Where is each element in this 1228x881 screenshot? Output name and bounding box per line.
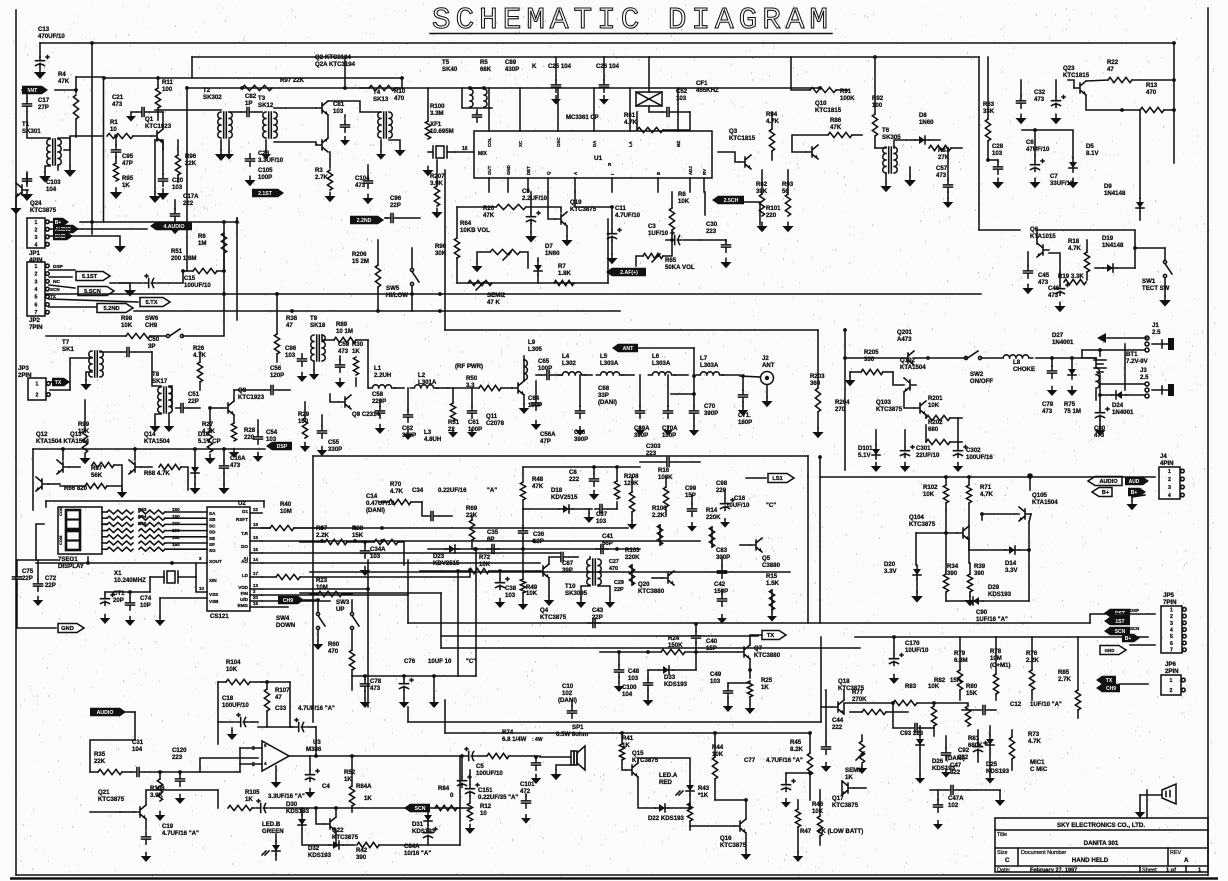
svg-text:SE: SE	[209, 536, 215, 541]
svg-text:473: 473	[338, 348, 349, 355]
svg-text:15P: 15P	[685, 492, 696, 499]
wire xout common	[36, 562, 207, 564]
svg-text:1 of: 1 of	[1166, 868, 1176, 874]
svg-text:100: 100	[162, 86, 173, 93]
tag GND JP5	[1100, 646, 1126, 655]
tag 2.1ST	[252, 189, 284, 197]
wire second bus drop left	[186, 88, 188, 271]
pins U1 bottom	[488, 178, 490, 192]
svg-text:DSP: DSP	[53, 264, 64, 270]
svg-text:C26 104: C26 104	[596, 63, 620, 70]
svg-text:C103: C103	[46, 179, 61, 186]
svg-text:FIN: FIN	[241, 591, 249, 596]
svg-text:R97 22K: R97 22K	[280, 77, 305, 84]
svg-text:150: 150	[172, 514, 180, 519]
svg-text:R26: R26	[193, 345, 205, 352]
svg-text:(DANI): (DANI)	[366, 507, 385, 514]
svg-text:120P: 120P	[270, 372, 284, 379]
svg-text:R14: R14	[706, 507, 718, 514]
svg-text:KDS193: KDS193	[286, 808, 310, 815]
svg-text:JP3: JP3	[18, 365, 29, 372]
svg-text:150: 150	[172, 542, 180, 547]
svg-text:3P: 3P	[148, 343, 155, 350]
svg-text:Date:: Date:	[997, 868, 1011, 874]
svg-text:T.R: T.R	[241, 531, 249, 536]
svg-text:CF1: CF1	[696, 80, 708, 87]
tag 4.AUDIO	[150, 222, 192, 230]
svg-text:R204: R204	[835, 399, 850, 406]
svg-text:C35: C35	[487, 529, 499, 536]
wire T1 to Q1	[64, 136, 103, 150]
svg-text:DISPLAY: DISPLAY	[58, 563, 84, 570]
svg-text:J4: J4	[1160, 453, 1167, 460]
svg-text:"A": "A"	[487, 487, 497, 494]
svg-text:4.7K: 4.7K	[390, 488, 403, 495]
svg-text:C58: C58	[372, 391, 384, 398]
svg-text:10UF/10: 10UF/10	[726, 502, 750, 509]
svg-text:0.47UF/10: 0.47UF/10	[366, 500, 395, 507]
svg-text:R25: R25	[761, 677, 773, 684]
svg-text:7: 7	[1170, 648, 1173, 654]
svg-text:2: 2	[36, 393, 39, 399]
svg-text:103: 103	[596, 518, 607, 525]
svg-text:16: 16	[253, 535, 258, 540]
svg-text:R206: R206	[352, 251, 367, 258]
svg-text:SK13: SK13	[373, 96, 389, 103]
svg-text:10P: 10P	[140, 602, 151, 609]
svg-text:C18: C18	[222, 695, 234, 702]
svg-text:R68 4.7K: R68 4.7K	[144, 470, 170, 477]
connector JP1	[27, 218, 45, 248]
wire U2 pin13 VDD	[262, 588, 368, 590]
svg-text:C170: C170	[905, 640, 920, 647]
svg-text:COM: COM	[58, 535, 63, 545]
svg-text:GREEN: GREEN	[262, 828, 284, 835]
svg-text:47P: 47P	[122, 160, 133, 167]
svg-text:C56: C56	[270, 365, 282, 372]
wire fb top	[217, 682, 219, 744]
svg-text:C33: C33	[275, 705, 287, 712]
svg-text:390P: 390P	[574, 436, 588, 443]
svg-text:LD: LD	[242, 573, 249, 578]
svg-text:J3: J3	[1140, 367, 1147, 374]
resistor R208b	[614, 481, 619, 499]
svg-text:4.7UF/16 "A": 4.7UF/16 "A"	[162, 830, 199, 837]
svg-text:C120: C120	[172, 747, 187, 754]
wire U2 pin17 LD	[262, 576, 276, 578]
tag SCN bottom	[404, 804, 430, 812]
svg-text:R105: R105	[245, 789, 260, 796]
svg-text:VSS: VSS	[209, 592, 218, 597]
capacitor c19cap	[142, 832, 151, 844]
svg-text:*1K: *1K	[698, 792, 709, 799]
connector JP6	[1161, 675, 1181, 695]
svg-text:MZ: MZ	[676, 140, 681, 147]
svg-text:2.7K: 2.7K	[1058, 676, 1071, 683]
svg-text:100UF/10: 100UF/10	[222, 702, 249, 709]
svg-text:KTA1504: KTA1504	[900, 364, 926, 371]
svg-text:SF: SF	[209, 542, 215, 547]
svg-text:330: 330	[864, 356, 875, 363]
svg-text:103: 103	[172, 184, 183, 191]
svg-text:150: 150	[172, 535, 180, 540]
svg-text:D33: D33	[664, 674, 676, 681]
svg-text:L7: L7	[700, 355, 708, 362]
svg-text:2.5: 2.5	[1152, 329, 1161, 336]
svg-text:1K: 1K	[344, 776, 352, 783]
svg-text:L303A: L303A	[652, 360, 671, 367]
svg-text:103: 103	[285, 352, 296, 359]
svg-text:C302: C302	[966, 447, 981, 454]
svg-text:VSB: VSB	[209, 599, 219, 604]
svg-text:KTC3875: KTC3875	[832, 802, 859, 809]
svg-text:47: 47	[1107, 66, 1114, 73]
svg-text:8.2K: 8.2K	[790, 746, 803, 753]
wire q21 rail	[90, 811, 120, 813]
svg-text:C17A: C17A	[183, 193, 199, 200]
wire bottom audio rail	[217, 790, 219, 808]
svg-text:SK1: SK1	[62, 346, 74, 353]
title block row lines	[995, 830, 1208, 866]
svg-text:L303A: L303A	[700, 362, 719, 369]
svg-text:XIN: XIN	[209, 578, 217, 583]
svg-text:R98: R98	[121, 315, 133, 322]
svg-text:C12: C12	[1010, 701, 1022, 708]
svg-text:R36: R36	[286, 315, 298, 322]
svg-text:223: 223	[706, 228, 717, 235]
svg-text:C41: C41	[602, 533, 614, 540]
svg-text:1UF/16 "A": 1UF/16 "A"	[976, 616, 1008, 623]
svg-text:D8: D8	[919, 112, 927, 119]
svg-text:1: 1	[35, 220, 38, 226]
svg-text:JP2: JP2	[29, 317, 40, 324]
svg-text:300P: 300P	[716, 554, 730, 561]
svg-text:X1: X1	[114, 570, 122, 577]
svg-text:100UF/16: 100UF/16	[966, 454, 993, 461]
svg-text:180P: 180P	[738, 419, 752, 426]
svg-text:4: 4	[35, 287, 38, 293]
svg-text:50KA VOL: 50KA VOL	[665, 264, 695, 271]
svg-text:473: 473	[1042, 408, 1053, 415]
wire xin	[149, 577, 151, 592]
svg-text:COM: COM	[58, 506, 63, 516]
wire U2 pin18 T.R	[262, 527, 270, 529]
svg-text:CS121: CS121	[210, 613, 229, 620]
svg-text:SK301: SK301	[22, 128, 41, 135]
svg-text:10.240MHZ: 10.240MHZ	[114, 577, 146, 584]
svg-text:2.2UF/10: 2.2UF/10	[522, 195, 548, 202]
svg-text:R69: R69	[466, 505, 478, 512]
svg-text:R84: R84	[438, 785, 450, 792]
svg-text:10: 10	[110, 126, 117, 133]
node bus junctions	[185, 86, 189, 90]
svg-text:R92: R92	[872, 95, 884, 102]
svg-text:ANT: ANT	[27, 88, 38, 94]
svg-text:D16: D16	[198, 431, 210, 438]
svg-text:10K: 10K	[226, 666, 238, 673]
svg-text:ADJ: ADJ	[688, 166, 693, 175]
wire JP1 gnd	[49, 236, 120, 242]
svg-text:22K: 22K	[94, 758, 106, 765]
resistor bank R51-R57 segment resistors	[107, 510, 133, 514]
svg-text:R75: R75	[1064, 401, 1076, 408]
svg-text:1UF/10 "A": 1UF/10 "A"	[1030, 701, 1062, 708]
svg-text:1: 1	[35, 264, 38, 270]
svg-text:SEMI2: SEMI2	[487, 292, 506, 299]
svg-text:KTC3875: KTC3875	[909, 521, 936, 528]
svg-text:680: 680	[928, 426, 939, 433]
svg-text:390: 390	[947, 570, 958, 577]
svg-text:SA: SA	[209, 511, 216, 516]
wire U2 pin20 UD	[262, 600, 330, 602]
svg-text:4: 4	[1170, 628, 1173, 634]
svg-text:C25 104: C25 104	[548, 63, 572, 70]
svg-text:Q16: Q16	[720, 835, 732, 842]
svg-text:R38: R38	[352, 525, 364, 532]
svg-text:U1: U1	[594, 155, 603, 162]
svg-text:C90: C90	[976, 609, 988, 616]
svg-text:68K: 68K	[480, 66, 492, 73]
svg-text:4.7K: 4.7K	[1068, 245, 1081, 252]
capacitor C4b	[306, 771, 315, 782]
svg-text:5.1ST: 5.1ST	[82, 274, 98, 280]
svg-text:Q19: Q19	[570, 199, 582, 206]
svg-text:SCN: SCN	[415, 806, 426, 812]
svg-text:KTC1815: KTC1815	[729, 135, 756, 142]
svg-text:R205: R205	[864, 349, 879, 356]
wire opamp out	[289, 755, 460, 757]
svg-text:CH9: CH9	[145, 322, 158, 329]
svg-text:10M: 10M	[280, 508, 292, 515]
svg-text:10: 10	[199, 586, 204, 591]
svg-text:470: 470	[609, 566, 618, 572]
svg-text:SB: SB	[209, 517, 216, 522]
wire U2 pin19 EMG	[262, 606, 288, 608]
svg-text:KTA1504: KTA1504	[144, 438, 170, 445]
svg-text:7PIN: 7PIN	[29, 324, 43, 331]
svg-text:DANITA 301: DANITA 301	[1084, 840, 1119, 847]
svg-text:C50: C50	[148, 336, 160, 343]
svg-text:222: 222	[569, 476, 580, 483]
wire bottom band bus 733	[445, 732, 810, 734]
svg-text:473: 473	[370, 685, 381, 692]
svg-text:150P: 150P	[714, 588, 728, 595]
svg-text:R95: R95	[122, 175, 134, 182]
svg-text:T3: T3	[258, 95, 266, 102]
svg-text:4.AUDIO: 4.AUDIO	[163, 224, 184, 230]
tag 5.1ST	[49, 269, 75, 271]
svg-text:1: 1	[1170, 607, 1173, 613]
svg-text:Q: Q	[546, 171, 551, 175]
svg-text:Q1: Q1	[145, 116, 154, 123]
svg-text:R39: R39	[974, 563, 986, 570]
svg-text:C83: C83	[716, 547, 728, 554]
svg-text:2.2K: 2.2K	[652, 512, 665, 519]
svg-text:15 2M: 15 2M	[352, 258, 369, 265]
svg-text:R4: R4	[58, 71, 66, 78]
svg-text:Q3: Q3	[729, 128, 738, 135]
svg-text:KTC3875: KTC3875	[30, 207, 57, 214]
svg-text:(DANI): (DANI)	[598, 399, 617, 406]
svg-text:Q104: Q104	[909, 514, 925, 521]
svg-text:473: 473	[1034, 96, 1045, 103]
svg-text:3: 3	[35, 235, 38, 241]
svg-text:0.22UF/35 "A": 0.22UF/35 "A"	[478, 794, 518, 801]
svg-text:8.1V: 8.1V	[1086, 150, 1099, 157]
svg-text:EMG: EMG	[238, 603, 249, 608]
digit 1	[66, 510, 80, 529]
svg-text:T7: T7	[62, 339, 70, 346]
svg-text:UP: UP	[336, 606, 344, 613]
ground C13	[39, 68, 41, 72]
ground T1 left	[69, 166, 71, 170]
svg-text:C11: C11	[615, 205, 626, 212]
svg-text:R13: R13	[1146, 82, 1158, 89]
svg-text:4: 4	[1168, 493, 1171, 499]
ground JP2 area	[129, 286, 131, 290]
svg-text:2: 2	[1170, 614, 1173, 620]
wire q6 cluster	[1135, 248, 1165, 268]
pins U1 top	[488, 88, 490, 131]
wire power rail y358	[914, 357, 966, 359]
svg-text:CH9: CH9	[283, 598, 293, 604]
svg-text:270: 270	[835, 406, 846, 413]
svg-text:C81: C81	[333, 101, 345, 108]
wire q23 down	[1086, 95, 1122, 110]
transistor Q13	[57, 460, 69, 474]
wire right inner drop	[978, 57, 980, 230]
svg-text:C44: C44	[832, 717, 844, 724]
svg-text:7PIN: 7PIN	[1163, 599, 1177, 606]
svg-text:D30: D30	[286, 801, 298, 808]
svg-text:R41: R41	[622, 735, 634, 742]
svg-text:2.5CH: 2.5CH	[724, 198, 739, 204]
svg-text:KTC3875: KTC3875	[720, 842, 747, 849]
svg-text:L9: L9	[528, 339, 536, 346]
tag AUDIO J4	[1088, 477, 1122, 486]
title block frame	[995, 818, 1208, 872]
wire U2 pin16 DO	[262, 540, 700, 542]
svg-text:(DANI): (DANI)	[558, 697, 577, 704]
svg-text:103: 103	[710, 678, 721, 685]
svg-text:D7: D7	[545, 243, 553, 250]
capacitor C47	[946, 786, 958, 795]
svg-text:C15: C15	[184, 275, 196, 282]
svg-text:Size: Size	[997, 850, 1008, 856]
svg-text:GND: GND	[61, 626, 74, 632]
svg-text:10.695M: 10.695M	[430, 128, 454, 135]
svg-text:D14: D14	[1005, 560, 1017, 567]
svg-text:0.5W 8ohm: 0.5W 8ohm	[556, 731, 589, 738]
transistor Q1	[151, 129, 163, 143]
capacitor mid cap	[978, 706, 990, 715]
svg-text:Q17: Q17	[832, 795, 844, 802]
svg-text:104: 104	[46, 186, 57, 193]
svg-text:150: 150	[172, 528, 180, 533]
svg-text:6: 6	[35, 302, 38, 308]
svg-text:KTA1015: KTA1015	[1030, 233, 1056, 240]
svg-text:ON/OFF: ON/OFF	[970, 378, 993, 385]
svg-text:470: 470	[1146, 89, 1157, 96]
svg-text:4: 4	[35, 242, 38, 248]
wire audio bottom bus	[459, 756, 461, 845]
svg-text:D29: D29	[988, 584, 1000, 591]
svg-text:U3: U3	[313, 739, 321, 746]
svg-text:47UF/10: 47UF/10	[1026, 146, 1050, 153]
svg-text:Q103: Q103	[876, 399, 892, 406]
svg-text:T8: T8	[152, 371, 160, 378]
wire osc verticals	[457, 571, 459, 676]
svg-text:L1: L1	[374, 365, 382, 372]
svg-text:R82: R82	[934, 677, 946, 684]
svg-text:C57: C57	[936, 165, 948, 172]
svg-text:430P: 430P	[505, 66, 519, 73]
svg-text:20P: 20P	[113, 597, 124, 604]
wire U2 pin15 AI	[262, 552, 560, 554]
svg-text:R46: R46	[812, 801, 824, 808]
ground vss	[159, 617, 161, 620]
svg-text:22: 22	[253, 507, 258, 512]
svg-text:33P: 33P	[598, 392, 609, 399]
svg-text:C3: C3	[648, 223, 656, 230]
svg-text:U/D: U/D	[240, 597, 249, 602]
svg-text:47: 47	[286, 322, 293, 329]
svg-text:L3: L3	[424, 429, 432, 436]
svg-text:R6: R6	[198, 233, 206, 240]
svg-text:R23: R23	[316, 577, 328, 584]
svg-text:JP5: JP5	[1163, 592, 1174, 599]
wire osc top bus	[523, 466, 640, 468]
svg-text:D22 KDS193: D22 KDS193	[648, 815, 685, 822]
svg-text:SW6: SW6	[145, 315, 159, 322]
tag 2.3CH	[712, 196, 744, 204]
svg-text:1ST: 1ST	[1115, 619, 1124, 625]
svg-text:15K: 15K	[966, 690, 978, 697]
svg-text:D31: D31	[412, 821, 424, 828]
svg-text:56K: 56K	[91, 472, 103, 479]
diode D16	[194, 463, 196, 477]
svg-text:D27: D27	[1052, 332, 1064, 339]
svg-text:C100: C100	[622, 684, 637, 691]
svg-text:TX: TX	[1106, 678, 1113, 684]
svg-text:R47: R47	[800, 828, 812, 835]
wire main vertical x92	[91, 43, 93, 234]
svg-text:MIX: MIX	[478, 151, 488, 157]
svg-text:15P: 15P	[706, 645, 717, 652]
svg-text:KDS193: KDS193	[308, 852, 332, 859]
svg-text:6P: 6P	[487, 536, 494, 543]
wire display com	[36, 524, 44, 557]
svg-text:47K: 47K	[532, 483, 544, 490]
svg-text:3.3V: 3.3V	[1005, 567, 1018, 574]
svg-text:1N4148: 1N4148	[1102, 242, 1124, 249]
svg-text:47: 47	[275, 694, 282, 701]
ground Q1 emitter	[154, 192, 156, 196]
tag 1 display	[102, 523, 107, 525]
svg-text:4PIN: 4PIN	[1160, 460, 1174, 467]
svg-text:C96: C96	[285, 345, 297, 352]
svg-text:680K: 680K	[968, 742, 983, 749]
seven segment display 7SEG1	[58, 507, 102, 554]
svg-text:XOUT: XOUT	[209, 559, 222, 564]
svg-text:KDS193: KDS193	[988, 591, 1012, 598]
svg-text:10UF 10: 10UF 10	[428, 658, 452, 665]
svg-text:2.1ST: 2.1ST	[258, 191, 273, 197]
tag GND JP1	[53, 232, 73, 240]
arrow to battery	[1107, 337, 1147, 339]
wire JP1 audio	[49, 228, 147, 230]
svg-text:ANT: ANT	[623, 346, 634, 352]
